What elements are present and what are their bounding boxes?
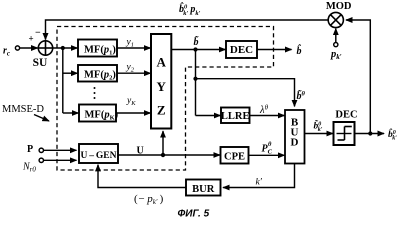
svg-text:MOD: MOD xyxy=(326,1,352,12)
wire BUR to U-GEN xyxy=(98,165,186,188)
wire to MF(pK) xyxy=(63,112,79,114)
svg-text:DEC: DEC xyxy=(230,44,253,56)
decision block DEC xyxy=(226,41,257,58)
svg-text:BUR: BUR xyxy=(192,184,215,195)
svg-text:b̃: b̃ xyxy=(194,35,200,48)
vertical dots xyxy=(94,87,96,99)
matched filter MF(pK) xyxy=(79,105,119,122)
input terminal p_k' xyxy=(334,43,338,47)
svg-text:SU: SU xyxy=(33,57,48,69)
svg-text:(− pk′ ): (− pk′ ) xyxy=(134,193,164,206)
svg-text:MF(p2): MF(p2) xyxy=(84,70,116,82)
svg-text:b̃θ: b̃θ xyxy=(297,89,306,102)
svg-text:y2: y2 xyxy=(126,63,135,74)
input terminal P xyxy=(39,148,43,152)
wire lambda_theta to BUD xyxy=(250,115,285,117)
svg-text:b̃0k′: b̃0k′ xyxy=(314,118,323,133)
svg-text:CPE: CPE xyxy=(224,152,245,163)
decision block DEC2 with signum symbol xyxy=(334,122,355,145)
wire to LLRE xyxy=(196,115,221,117)
svg-text:U – GEN: U – GEN xyxy=(80,151,116,161)
wire b_tilde_theta to BUD top xyxy=(196,79,295,107)
svg-text:k′: k′ xyxy=(256,178,263,188)
matched filter MF(p2) xyxy=(78,65,117,82)
wire yK to AYZ xyxy=(116,112,150,114)
feedback wire from MOD output to SU xyxy=(46,20,328,40)
svg-text:λθ: λθ xyxy=(259,104,269,117)
svg-text:LLRE: LLRE xyxy=(221,111,250,122)
svg-text:P: P xyxy=(27,144,33,155)
svg-text:MF(p1): MF(p1) xyxy=(84,45,116,57)
matched filter MF(p1) xyxy=(78,40,117,57)
svg-text:rc: rc xyxy=(3,46,10,58)
pointer arrow MMSE-D xyxy=(34,115,49,122)
junction node A after SU xyxy=(61,46,65,50)
junction node U xyxy=(161,153,165,157)
wire BUD bottom to BUR xyxy=(223,164,294,188)
wire b_tilde junction down xyxy=(195,50,197,116)
wire CPE to BUD xyxy=(249,154,285,156)
wire p_k' to MOD xyxy=(335,29,337,43)
wire SU to MF(p1) xyxy=(53,47,78,49)
svg-text:U: U xyxy=(137,146,144,157)
input terminal N_r0 xyxy=(39,158,43,162)
svg-text:PCθ: PCθ xyxy=(262,141,273,156)
wire feedback up to MOD xyxy=(346,20,370,134)
junction node D xyxy=(368,131,372,135)
svg-text:DEC: DEC xyxy=(335,110,357,121)
wire N_r0 to U-GEN xyxy=(44,159,77,161)
block U-GEN xyxy=(79,144,118,163)
dashed boundary MMSE-D (L-shaped) xyxy=(57,27,274,171)
wire U up to AYZ xyxy=(162,131,164,155)
svg-text:Nr0: Nr0 xyxy=(22,162,36,174)
junction node C xyxy=(193,77,197,81)
svg-text:ФИГ. 5: ФИГ. 5 xyxy=(178,209,210,220)
wire y2 to AYZ xyxy=(117,72,150,74)
input terminal r_c xyxy=(15,46,19,50)
svg-text:A: A xyxy=(157,55,167,70)
svg-text:b̂0k′pk′: b̂0k′pk′ xyxy=(179,2,201,17)
svg-text:Y: Y xyxy=(157,79,167,94)
svg-text:MF(pK): MF(pK) xyxy=(85,110,119,122)
block BUD xyxy=(285,110,305,164)
junction node b_tilde xyxy=(193,47,197,51)
svg-text:+: + xyxy=(29,34,34,44)
wire y1 to AYZ xyxy=(117,47,150,49)
wire to MF(p2) xyxy=(63,72,78,74)
svg-text:pk′: pk′ xyxy=(330,49,342,61)
summing junction SU xyxy=(38,41,52,55)
wire P to U-GEN xyxy=(44,149,77,151)
wire BUD to DEC2 xyxy=(305,133,333,135)
block AYZ xyxy=(151,34,171,129)
wire junction A down xyxy=(62,48,64,113)
svg-text:D: D xyxy=(291,137,299,149)
svg-text:b̂: b̂ xyxy=(297,44,302,57)
svg-text:−: − xyxy=(35,28,41,39)
wire AYZ to DEC xyxy=(171,49,225,51)
wire DEC to output b_hat xyxy=(257,49,292,51)
block CPE xyxy=(221,147,249,164)
multiplier MOD xyxy=(328,12,343,27)
svg-text:Z: Z xyxy=(157,103,166,118)
svg-text:b̂0k′: b̂0k′ xyxy=(388,127,397,141)
svg-text:MMSE-D: MMSE-D xyxy=(2,104,44,115)
wire DEC2 to output xyxy=(355,133,385,135)
block LLRE xyxy=(221,108,250,124)
wire U-GEN to CPE xyxy=(118,154,220,156)
svg-text:y1: y1 xyxy=(126,38,134,49)
svg-text:yK: yK xyxy=(126,96,136,107)
block BUR xyxy=(186,180,221,196)
wire r_c to SU xyxy=(20,47,38,49)
